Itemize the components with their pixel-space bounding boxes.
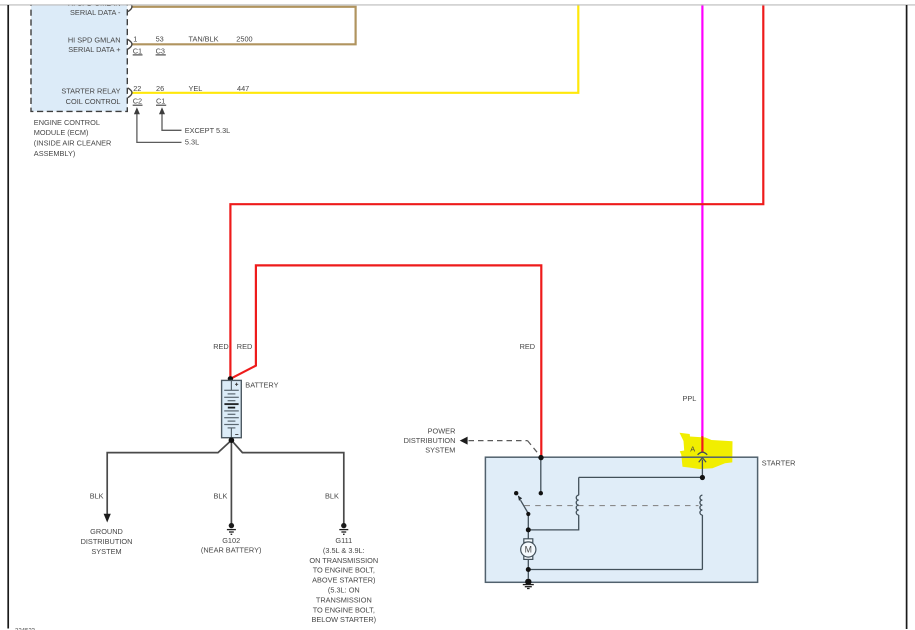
svg-text:TO ENGINE BOLT,: TO ENGINE BOLT,	[313, 566, 375, 575]
svg-text:BLK: BLK	[214, 492, 228, 501]
svg-text:53: 53	[156, 34, 164, 43]
svg-text:M: M	[525, 545, 532, 555]
svg-text:G102: G102	[222, 536, 240, 545]
svg-text:SYSTEM: SYSTEM	[91, 547, 121, 556]
svg-text:C3: C3	[156, 46, 165, 55]
svg-text:STARTER RELAY: STARTER RELAY	[61, 87, 120, 96]
svg-text:YEL: YEL	[189, 84, 203, 93]
svg-text:26: 26	[156, 84, 164, 93]
svg-text:STARTER: STARTER	[762, 458, 796, 467]
svg-text:1: 1	[133, 34, 137, 43]
svg-text:ABOVE STARTER): ABOVE STARTER)	[312, 576, 375, 585]
svg-text:(INSIDE AIR CLEANER: (INSIDE AIR CLEANER	[34, 139, 112, 148]
svg-text:BLK: BLK	[325, 492, 339, 501]
svg-text:ENGINE CONTROL: ENGINE CONTROL	[34, 118, 100, 127]
svg-text:C1: C1	[133, 46, 142, 55]
svg-text:TRANSMISSION: TRANSMISSION	[316, 595, 372, 604]
svg-text:DISTRIBUTION: DISTRIBUTION	[81, 537, 133, 546]
svg-text:BELOW STARTER): BELOW STARTER)	[311, 615, 376, 624]
svg-text:COIL CONTROL: COIL CONTROL	[66, 97, 121, 106]
svg-text:22: 22	[133, 84, 141, 93]
svg-text:SERIAL DATA +: SERIAL DATA +	[68, 45, 120, 54]
svg-text:RED: RED	[213, 342, 229, 351]
svg-text:EXCEPT 5.3L: EXCEPT 5.3L	[185, 126, 231, 135]
svg-text:2500: 2500	[236, 34, 252, 43]
svg-text:5.3L: 5.3L	[185, 138, 199, 147]
svg-text:(NEAR BATTERY): (NEAR BATTERY)	[201, 546, 262, 555]
svg-text:SYSTEM: SYSTEM	[425, 446, 455, 455]
svg-text:TO ENGINE BOLT,: TO ENGINE BOLT,	[313, 605, 375, 614]
svg-text:BLK: BLK	[90, 492, 104, 501]
svg-text:GROUND: GROUND	[90, 527, 123, 536]
svg-text:C2: C2	[133, 97, 142, 106]
svg-text:(3.5L & 3.9L:: (3.5L & 3.9L:	[323, 546, 365, 555]
svg-text:MODULE (ECM): MODULE (ECM)	[34, 128, 89, 137]
svg-text:PPL: PPL	[683, 394, 697, 403]
svg-text:SERIAL DATA -: SERIAL DATA -	[70, 8, 121, 17]
svg-text:TAN/BLK: TAN/BLK	[189, 34, 219, 43]
svg-text:DISTRIBUTION: DISTRIBUTION	[404, 436, 456, 445]
svg-text:C1: C1	[156, 97, 165, 106]
svg-text:BATTERY: BATTERY	[245, 381, 278, 390]
svg-text:G111: G111	[335, 536, 352, 545]
svg-text:RED: RED	[520, 342, 536, 351]
svg-text:447: 447	[237, 84, 249, 93]
svg-text:(5.3L: ON: (5.3L: ON	[328, 586, 360, 595]
svg-text:HI SPD GMLAN: HI SPD GMLAN	[68, 36, 121, 45]
svg-text:ASSEMBLY): ASSEMBLY)	[34, 149, 76, 158]
svg-text:POWER: POWER	[428, 427, 456, 436]
svg-text:ON TRANSMISSION: ON TRANSMISSION	[309, 556, 378, 565]
svg-text:A: A	[690, 444, 695, 453]
svg-text:RED: RED	[237, 342, 253, 351]
